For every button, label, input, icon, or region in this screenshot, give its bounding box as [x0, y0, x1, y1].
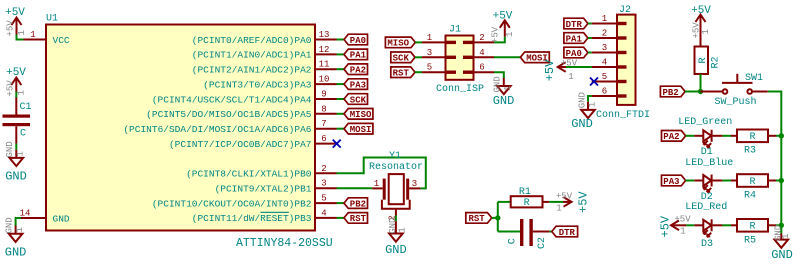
- svg-text:C1: C1: [20, 102, 32, 113]
- svg-text:C: C: [20, 129, 26, 140]
- wire +5V to C1: [15, 92, 17, 98]
- svg-text:+5V: +5V: [6, 20, 16, 37]
- ground (J1): [493, 76, 515, 108]
- svg-text:1: 1: [503, 86, 513, 91]
- wire U1 to label SCK: [337, 98, 345, 100]
- svg-text:(PCINT2/AIN1/ADC2)PA2: (PCINT2/AIN1/ADC2)PA2: [192, 65, 312, 76]
- LED D1: [694, 130, 722, 148]
- wire J1 pin4 to MOSI: [494, 56, 520, 58]
- wire C1 to ground: [15, 144, 17, 150]
- svg-text:LED_Green: LED_Green: [678, 117, 732, 128]
- wire PA2 to D1: [686, 135, 695, 137]
- IC U1 body: [46, 14, 333, 251]
- wire DTR to J2: [588, 23, 592, 25]
- net label RST (J1): [391, 67, 415, 79]
- ground (J2): [571, 92, 597, 131]
- wire +5V to D3: [686, 224, 694, 226]
- svg-text:4: 4: [479, 48, 484, 58]
- net label RST: [344, 213, 368, 225]
- wire PB1 to Y1 pin1: [337, 187, 373, 189]
- svg-text:GND: GND: [385, 243, 407, 257]
- junction R3 node: [779, 133, 784, 138]
- svg-text:LED_Blue: LED_Blue: [685, 157, 733, 169]
- svg-text:14: 14: [20, 208, 31, 218]
- U1 pin 12 PA1: [192, 45, 337, 61]
- svg-text:PA3: PA3: [350, 80, 366, 90]
- svg-text:+5V: +5V: [6, 67, 26, 79]
- net label PB2: [344, 198, 368, 210]
- svg-text:GND: GND: [571, 117, 593, 131]
- svg-text:+5V: +5V: [556, 191, 573, 201]
- power +5V (J2 pin4): [543, 59, 578, 82]
- J2 pin 6: [592, 87, 617, 97]
- net label PA2: [344, 64, 368, 76]
- svg-text:GND: GND: [5, 246, 27, 260]
- svg-text:11: 11: [319, 60, 330, 70]
- wire U1 to label PB2: [337, 202, 345, 204]
- svg-text:5: 5: [427, 63, 432, 73]
- power +5V (to C1): [5, 67, 26, 97]
- svg-text:Conn_FTDI: Conn_FTDI: [596, 110, 650, 121]
- svg-text:GND: GND: [5, 170, 27, 184]
- net label MOSI: [344, 123, 373, 135]
- resistor R3: [731, 130, 776, 157]
- svg-text:+5V: +5V: [5, 7, 25, 19]
- svg-text:DTR: DTR: [566, 20, 583, 30]
- svg-text:PB2: PB2: [350, 199, 366, 209]
- svg-text:Y1: Y1: [389, 151, 401, 162]
- svg-text:R4: R4: [744, 190, 756, 201]
- net label PA3: [344, 79, 368, 91]
- wire D3 to R5: [722, 224, 731, 226]
- net label PA0 (J2): [564, 47, 588, 59]
- capacitor C1: [3, 98, 32, 144]
- wire U1 to label PA2: [337, 68, 345, 70]
- wire +5V to U1 pin1: [17, 35, 24, 40]
- svg-text:SW1: SW1: [745, 73, 763, 84]
- svg-text:R1: R1: [519, 187, 531, 198]
- wire U1 to label PA3: [337, 83, 345, 85]
- wire RST to J1 pin5: [415, 71, 422, 73]
- net label RST (R1): [466, 213, 492, 225]
- wire U1 to label PA0: [337, 39, 345, 41]
- junction RST node: [495, 215, 500, 220]
- svg-text:LED_Red: LED_Red: [685, 201, 727, 213]
- LED_Green row label texts: [678, 117, 732, 158]
- svg-text:R: R: [524, 198, 530, 209]
- svg-text:R: R: [698, 57, 709, 63]
- J1 pin 4: [474, 48, 495, 58]
- svg-text:R: R: [749, 132, 755, 143]
- svg-text:1: 1: [602, 14, 607, 24]
- wire J2 pin6 to ground: [588, 96, 592, 102]
- svg-text:PA2: PA2: [350, 66, 366, 76]
- net label SCK (J1): [391, 52, 415, 64]
- svg-text:1: 1: [17, 90, 27, 95]
- svg-text:+5V: +5V: [543, 59, 557, 81]
- wire PA1 to J2: [588, 37, 592, 39]
- J1 pin 5: [422, 63, 446, 73]
- svg-text:GND: GND: [771, 248, 793, 262]
- power +5V (D3): [659, 214, 692, 237]
- net label PA1 (J2): [564, 33, 588, 45]
- J1 pin 6: [474, 63, 495, 73]
- svg-text:(PCINT3/T0/ADC3)PA3: (PCINT3/T0/ADC3)PA3: [203, 79, 312, 90]
- resonator Y1: [369, 151, 423, 221]
- svg-text:+5V: +5V: [577, 191, 591, 213]
- ground (Y1): [385, 218, 407, 257]
- svg-text:PA0: PA0: [350, 36, 366, 46]
- J2 pin 2: [592, 29, 617, 39]
- svg-text:1: 1: [17, 30, 27, 35]
- net label PA1: [344, 49, 368, 61]
- svg-text:1: 1: [701, 29, 711, 34]
- svg-text:1: 1: [397, 227, 407, 232]
- svg-text:3: 3: [412, 179, 417, 189]
- svg-text:R: R: [749, 222, 755, 233]
- power +5V (R1): [556, 191, 591, 214]
- svg-text:PA0: PA0: [566, 49, 582, 59]
- net label SCK: [344, 94, 368, 106]
- svg-text:(PCINT9/XTAL2)PB1: (PCINT9/XTAL2)PB1: [215, 184, 312, 195]
- svg-text:1: 1: [374, 179, 379, 189]
- power +5V (R2): [691, 5, 711, 47]
- svg-text:PA2: PA2: [663, 132, 679, 142]
- wire RST to junction: [492, 217, 498, 219]
- U1 pin 4 PB3: [192, 208, 337, 224]
- svg-text:10: 10: [319, 75, 330, 85]
- svg-text:8: 8: [321, 104, 326, 114]
- resistor R2: [695, 47, 722, 75]
- svg-text:1: 1: [568, 72, 573, 82]
- wire U1 to label MISO: [337, 113, 345, 115]
- wire D2 to R4: [722, 180, 731, 182]
- svg-text:(PCINT7/ICP/OC0B/ADC7)PA7: (PCINT7/ICP/OC0B/ADC7)PA7: [169, 139, 312, 150]
- ground (below U1 GND pin): [4, 217, 26, 259]
- svg-text:+5V: +5V: [5, 80, 15, 97]
- LED D2: [694, 175, 722, 193]
- ground (below C1): [5, 141, 27, 183]
- svg-text:(PCINT10/CKOUT/OC0A/INT0)PB2: (PCINT10/CKOUT/OC0A/INT0)PB2: [152, 198, 312, 209]
- svg-text:RST: RST: [350, 214, 367, 224]
- net label MISO: [344, 109, 373, 121]
- svg-text:R: R: [749, 177, 755, 188]
- wire U1 to label PA1: [337, 53, 345, 55]
- svg-text:MOSI: MOSI: [350, 125, 372, 135]
- svg-text:1: 1: [427, 33, 432, 43]
- resistor R5: [731, 219, 776, 247]
- wire column to ground: [780, 225, 782, 233]
- svg-text:PA1: PA1: [566, 34, 583, 44]
- svg-text:7: 7: [321, 119, 326, 129]
- svg-text:D3: D3: [701, 239, 713, 250]
- svg-text:RST: RST: [393, 69, 410, 79]
- net label MOSI (J1): [520, 52, 549, 64]
- net label DTR (J2): [564, 18, 588, 30]
- LED D3: [694, 219, 722, 237]
- wire U1 to label RST: [337, 217, 345, 219]
- wire R1 to +5V: [549, 201, 563, 203]
- svg-text:J2: J2: [619, 5, 631, 16]
- wire junction to C2: [498, 231, 520, 233]
- net label PA0: [344, 34, 368, 46]
- J2 pin 4: [592, 58, 617, 68]
- svg-text:1: 1: [556, 204, 561, 214]
- wire PA0 to J2: [588, 52, 592, 54]
- wire SCK to J1 pin3: [415, 56, 422, 58]
- svg-text:MISO: MISO: [387, 39, 409, 49]
- wire D1 to R3: [722, 135, 731, 137]
- wire vertical R1/C2: [497, 202, 499, 232]
- svg-text:PA1: PA1: [350, 51, 367, 61]
- svg-text:3: 3: [321, 179, 326, 189]
- wire R3 to column: [776, 135, 781, 137]
- U1 pin 2 PB0: [186, 164, 336, 180]
- svg-text:VCC: VCC: [53, 35, 70, 46]
- svg-text:R3: R3: [744, 146, 756, 157]
- svg-text:6: 6: [602, 87, 607, 97]
- svg-text:2: 2: [321, 164, 326, 174]
- svg-text:12: 12: [319, 45, 330, 55]
- capacitor C2: [508, 219, 550, 249]
- wire U1 to label MOSI: [337, 128, 345, 130]
- J2 pin 5: [592, 72, 617, 82]
- J2 pin 1: [592, 14, 617, 24]
- svg-text:6: 6: [479, 63, 484, 73]
- svg-text:13: 13: [319, 30, 330, 40]
- wire Y1 pin2 to ground: [395, 216, 397, 222]
- svg-text:MISO: MISO: [350, 110, 372, 120]
- svg-text:GND: GND: [4, 217, 14, 233]
- no-connect U1 pin 6: [333, 140, 341, 148]
- svg-text:+5V: +5V: [491, 26, 501, 43]
- J1 pin 3: [422, 48, 446, 58]
- net label PA3 (D2): [662, 175, 686, 187]
- svg-text:+5V: +5V: [659, 215, 673, 237]
- svg-text:5: 5: [321, 194, 326, 204]
- svg-text:GND: GND: [493, 94, 515, 108]
- wire U1 GND pin to ground: [16, 218, 21, 226]
- svg-text:D1: D1: [701, 147, 713, 158]
- svg-text:4: 4: [602, 58, 607, 68]
- U1 pin 9 PA4: [152, 90, 337, 106]
- U1 pin 10 PA3: [203, 75, 336, 91]
- svg-text:SCK: SCK: [350, 95, 367, 105]
- wire SW1 to LED column: [768, 92, 782, 136]
- U1 pin 8 PA5: [146, 104, 336, 120]
- svg-text:SCK: SCK: [393, 54, 410, 64]
- junction R4 node: [779, 178, 784, 183]
- svg-text:U1: U1: [46, 14, 58, 25]
- svg-text:GND: GND: [53, 213, 70, 224]
- connector J1 body: [436, 25, 484, 96]
- J1 pin 1: [422, 33, 446, 43]
- net label DTR (C2): [552, 226, 578, 238]
- svg-text:1: 1: [587, 102, 597, 107]
- wire PB0 to Y1 pin3: [337, 158, 426, 189]
- wire to R1: [498, 201, 511, 203]
- svg-text:9: 9: [321, 90, 326, 100]
- power +5V (to U1 VCC): [5, 7, 27, 37]
- svg-text:(PCINT1/AIN0/ADC1)PA1: (PCINT1/AIN0/ADC1)PA1: [192, 50, 312, 61]
- junction PB2 node: [698, 89, 703, 94]
- U1 RESET overline: [260, 211, 288, 213]
- svg-text:(PCINT0/AREF/ADC0)PA0: (PCINT0/AREF/ADC0)PA0: [192, 35, 312, 46]
- svg-text:4: 4: [321, 208, 326, 218]
- svg-text:GND: GND: [5, 141, 15, 157]
- svg-text:(PCINT6/SDA/DI/MOSI/OC1A/ADC6): (PCINT6/SDA/DI/MOSI/OC1A/ADC6)PA6: [123, 124, 311, 135]
- switch SW1: [701, 73, 768, 108]
- LED_Blue row label texts: [685, 157, 733, 203]
- svg-text:GND: GND: [577, 92, 587, 108]
- svg-text:C: C: [508, 238, 519, 244]
- net label PA2 (D1): [662, 131, 686, 143]
- svg-text:J1: J1: [449, 25, 461, 36]
- wire PA3 to D2: [686, 180, 695, 182]
- svg-text:DTR: DTR: [559, 228, 576, 238]
- power +5V (J1): [491, 10, 516, 43]
- J2 pin 3: [592, 43, 617, 53]
- resistor R4: [731, 174, 776, 201]
- wire R2 to junction: [700, 74, 702, 92]
- net label MISO (J1): [385, 37, 415, 49]
- svg-text:(PCINT5/DO/MISO/OC1B/ADC5)PA5: (PCINT5/DO/MISO/OC1B/ADC5)PA5: [146, 109, 312, 120]
- U1 pin 6 PA7: [169, 134, 337, 150]
- U1 pin 3 PB1: [215, 179, 337, 195]
- junction R5 node: [779, 223, 784, 228]
- svg-text:1: 1: [30, 30, 35, 40]
- svg-text:R2: R2: [711, 56, 722, 68]
- U1 pin 11 PA2: [192, 60, 337, 76]
- net label PB2 (SW1): [660, 86, 685, 98]
- svg-text:R5: R5: [744, 236, 756, 247]
- svg-text:(PCINT11/dW/RESET)PB3: (PCINT11/dW/RESET)PB3: [192, 213, 312, 224]
- svg-text:2: 2: [602, 29, 607, 39]
- svg-text:+5V: +5V: [493, 10, 513, 22]
- svg-text:1: 1: [15, 227, 25, 232]
- resistor R1: [511, 187, 550, 209]
- svg-text:1: 1: [781, 234, 791, 239]
- svg-text:GND: GND: [493, 76, 503, 92]
- svg-text:Conn_ISP: Conn_ISP: [436, 84, 484, 95]
- wire PB2 to junction: [685, 91, 700, 93]
- svg-text:5: 5: [602, 72, 607, 82]
- svg-text:3: 3: [602, 43, 607, 53]
- svg-text:+5V: +5V: [691, 22, 701, 39]
- svg-text:PB2: PB2: [662, 88, 678, 98]
- wire column down 2: [780, 181, 782, 226]
- svg-text:C2: C2: [537, 237, 548, 249]
- no-connect J2 pin5: [590, 78, 598, 86]
- U1 pin 7 PA6: [123, 119, 336, 135]
- wire C2 to DTR: [549, 231, 551, 233]
- connector J2 body: [596, 5, 650, 121]
- svg-text:SW_Push: SW_Push: [715, 96, 757, 108]
- svg-text:ATTINY84-20SSU: ATTINY84-20SSU: [236, 237, 333, 250]
- svg-text:1: 1: [680, 226, 685, 236]
- svg-text:1: 1: [16, 151, 26, 156]
- svg-text:2: 2: [479, 33, 484, 43]
- wire column down 1: [780, 136, 782, 181]
- svg-text:6: 6: [321, 134, 326, 144]
- wire R5 to column: [776, 224, 781, 226]
- wire J1 pin6 to ground: [494, 72, 504, 78]
- svg-text:(PCINT4/USCK/SCL/T1/ADC4)PA4: (PCINT4/USCK/SCL/T1/ADC4)PA4: [152, 94, 312, 105]
- U1 pin 13 PA0: [192, 30, 337, 46]
- J1 pin 2: [474, 33, 495, 43]
- LED_Red row label texts: [685, 201, 727, 250]
- wire MISO to J1 pin1: [415, 41, 422, 43]
- ground (LED column): [771, 225, 793, 262]
- wire R4 to column: [776, 180, 781, 182]
- wire J1 pin2 to +5V: [494, 37, 505, 43]
- svg-text:+5V: +5V: [691, 5, 711, 17]
- svg-text:PA3: PA3: [663, 177, 679, 187]
- svg-text:3: 3: [427, 48, 432, 58]
- U1 pin 1 VCC: [24, 30, 70, 46]
- wire +5V to J2 pin4: [566, 66, 592, 68]
- U1 pin 5 PB2: [152, 194, 337, 210]
- svg-text:Resonator: Resonator: [369, 162, 423, 173]
- svg-text:(PCINT8/CLKI/XTAL1)PB0: (PCINT8/CLKI/XTAL1)PB0: [186, 169, 312, 180]
- U1 pin 14 GND: [20, 208, 70, 224]
- svg-text:RST: RST: [468, 214, 485, 224]
- svg-text:+5V: +5V: [674, 214, 691, 224]
- svg-text:1: 1: [505, 32, 515, 37]
